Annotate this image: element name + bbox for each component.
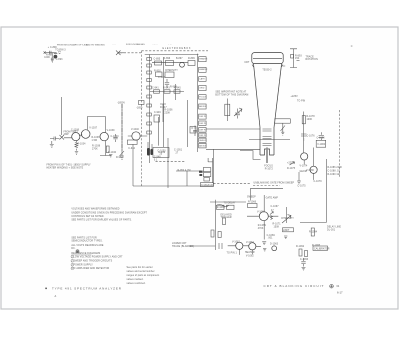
tube V1062a bbox=[236, 242, 243, 249]
labels top-left cluster bbox=[44, 47, 66, 61]
svg-text:4 IF AMPLIFIER AND DETECTOR: 4 IF AMPLIFIER AND DETECTOR bbox=[71, 267, 109, 270]
svg-text:DELAYED: DELAYED bbox=[221, 214, 232, 217]
potentiometer R1081 below astig bbox=[281, 123, 286, 135]
svg-text:R-1092: R-1092 bbox=[296, 246, 305, 248]
svg-text:1 LOW VOLTAGE POWER SUPPLY A: 1 LOW VOLTAGE POWER SUPPLY AND CRT bbox=[71, 255, 123, 258]
svg-text:V-1084: V-1084 bbox=[317, 144, 326, 146]
svg-text:R-1086 220K: R-1086 220K bbox=[328, 167, 343, 169]
right HV rail x303.7 bbox=[303, 112, 305, 153]
svg-text:. ... .. .: . ... .. . bbox=[152, 44, 158, 46]
svg-text:C-1080: C-1080 bbox=[317, 138, 326, 140]
svg-text:.001: .001 bbox=[268, 238, 273, 240]
svg-text:UNBLANKING GATE FROM SWEEP: UNBLANKING GATE FROM SWEEP bbox=[254, 181, 295, 184]
labels R1036 R1038 bbox=[92, 137, 101, 151]
capacitor C1044 box bbox=[127, 140, 137, 144]
svg-text:R-945: R-945 bbox=[174, 88, 181, 90]
to delay line label box bbox=[200, 183, 215, 187]
resistor R1034 bbox=[75, 140, 78, 150]
see important note text bbox=[215, 90, 248, 96]
resistor R1060 row bbox=[154, 90, 181, 93]
CRT side pins bbox=[252, 65, 285, 68]
node arrow W bbox=[116, 51, 124, 56]
box label small bbox=[283, 228, 294, 232]
svg-text:R-902: R-902 bbox=[154, 70, 161, 72]
dashed rail x339.5 bbox=[339, 110, 341, 177]
svg-text:SEMICONDUCTOR TYPES.: SEMICONDUCTOR TYPES. bbox=[71, 241, 103, 243]
svg-text:VOLTAGES AND WAVEFORMS OBTAINE: VOLTAGES AND WAVEFORMS OBTAINED bbox=[71, 208, 119, 211]
svg-text:.. ...: .. ... bbox=[168, 44, 172, 46]
faint header text row bbox=[57, 44, 105, 47]
faint header continuation bbox=[112, 43, 172, 46]
wire y222.4 bbox=[300, 221, 327, 223]
svg-text:R-1061: R-1061 bbox=[217, 207, 226, 209]
tube V1068 blanking bbox=[259, 212, 268, 221]
node input arrow bbox=[60, 133, 65, 140]
wire row y91.5 bbox=[150, 91, 184, 93]
capacitor C1097 bottom right bbox=[301, 258, 305, 270]
capacitor C1048 cluster bbox=[154, 104, 166, 122]
label C1069 bbox=[267, 235, 276, 240]
capacitor C1047 cluster bbox=[155, 61, 196, 66]
comps left of pins bbox=[191, 126, 197, 137]
svg-text:INTENSITY: INTENSITY bbox=[165, 70, 178, 72]
tube V1033 bbox=[81, 130, 90, 139]
svg-text:ROTATION: ROTATION bbox=[306, 58, 319, 61]
wire y139.6 astig bbox=[249, 139, 290, 141]
capacitor C1076 bbox=[301, 134, 307, 141]
see parts list block bbox=[71, 237, 103, 250]
svg-text:V-1074: V-1074 bbox=[300, 166, 309, 168]
label from vert bbox=[64, 132, 79, 137]
CRT grid electrodes bbox=[263, 129, 272, 155]
bottom middle paragraph bbox=[127, 266, 160, 285]
right side labels bbox=[291, 96, 343, 232]
wire under V1036 bbox=[100, 141, 111, 156]
svg-text:TYPE 491 SPECTRUM ANALYZER: TYPE 491 SPECTRUM ANALYZER bbox=[52, 287, 122, 291]
svg-text:R-1078: R-1078 bbox=[307, 116, 316, 118]
CRT cathode stem bbox=[266, 150, 268, 163]
svg-text:TRACE (BLANKED): TRACE (BLANKED) bbox=[172, 245, 194, 248]
comps bottom right bbox=[299, 249, 308, 257]
trace rotation coil L1090 bbox=[290, 49, 300, 68]
svg-text:V-1039: V-1039 bbox=[107, 130, 116, 132]
svg-text:C-1051: C-1051 bbox=[174, 150, 183, 152]
wire vertical x213 bbox=[212, 149, 214, 184]
potentiometer R1042 on dashdot rail bbox=[120, 104, 125, 159]
svg-text:FOR S N RANGES: FOR S N RANGES bbox=[126, 43, 145, 46]
svg-text:C-895: C-895 bbox=[154, 59, 161, 61]
svg-text:AND HV WINDING: AND HV WINDING bbox=[86, 44, 105, 47]
capacitor C1040 bbox=[113, 134, 117, 142]
svg-text:R-1095: R-1095 bbox=[312, 245, 321, 247]
svg-text:R-1066: R-1066 bbox=[248, 202, 257, 204]
svg-text:270K: 270K bbox=[92, 149, 98, 151]
svg-text:220K: 220K bbox=[164, 112, 170, 114]
svg-text:GATE AMP: GATE AMP bbox=[266, 196, 279, 199]
wire rail x187.3 bbox=[186, 100, 188, 147]
trace rotation labels bbox=[295, 56, 318, 62]
wire top rail inside box bbox=[145, 54, 199, 56]
svg-text:DEF PL: DEF PL bbox=[199, 135, 207, 137]
capacitor C1056 symbol bbox=[165, 79, 169, 88]
svg-text:CONTROLS SET AS NOTED.: CONTROLS SET AS NOTED. bbox=[71, 215, 104, 218]
svg-text:-1850V: -1850V bbox=[117, 103, 125, 105]
svg-text:SHIELD: SHIELD bbox=[199, 140, 207, 142]
svg-text:C-1079: C-1079 bbox=[314, 181, 323, 183]
svg-text:UNDER CONDITIONS GIVEN ON PREC: UNDER CONDITIONS GIVEN ON PRECEDING DIAG… bbox=[71, 211, 147, 214]
svg-text:V-1062: V-1062 bbox=[246, 255, 255, 257]
svg-text:+ C-890: + C-890 bbox=[48, 47, 58, 49]
svg-text:V-1064: V-1064 bbox=[246, 242, 255, 244]
svg-text:SEE IMPORTANT NOTE AT: SEE IMPORTANT NOTE AT bbox=[215, 90, 246, 93]
svg-text:E L E C T R O D E B O X: E L E C T R O D E B O X bbox=[163, 48, 191, 50]
svg-text:R-1069: R-1069 bbox=[258, 225, 267, 227]
svg-text:R-896: R-896 bbox=[164, 58, 171, 60]
capacitor C1064 bbox=[235, 109, 240, 119]
connector pins P1..P12 bbox=[199, 57, 206, 148]
wire neck feed y149 bbox=[206, 148, 260, 150]
svg-text:LIMIT: LIMIT bbox=[283, 230, 290, 232]
electrode box dashed outline bbox=[133, 51, 214, 186]
svg-text:. .. .: . .. . bbox=[112, 44, 116, 46]
svg-text:-1850: -1850 bbox=[136, 108, 143, 110]
resistor cluster left of tubes bbox=[211, 230, 221, 238]
connector pin labels bbox=[199, 58, 208, 148]
svg-text:470K: 470K bbox=[258, 228, 264, 230]
svg-text:C-1096: C-1096 bbox=[300, 259, 309, 261]
svg-text:DEF PL: DEF PL bbox=[199, 116, 207, 118]
svg-text:3 POWER SUPPLY: 3 POWER SUPPLY bbox=[71, 265, 93, 267]
svg-text:DEF PL: DEF PL bbox=[199, 130, 207, 132]
svg-text:C-1075: C-1075 bbox=[298, 186, 307, 188]
label plate line bbox=[47, 165, 92, 170]
delay line box row bbox=[217, 205, 235, 209]
connector column rail bbox=[197, 54, 199, 152]
svg-text:1.5M: 1.5M bbox=[92, 140, 98, 142]
svg-text:DELAY LINE: DELAY LINE bbox=[327, 226, 341, 229]
tube V1036 bbox=[100, 132, 108, 140]
resistor hatches right of tube bbox=[271, 216, 273, 220]
svg-text:C-893: C-893 bbox=[56, 59, 63, 61]
svg-text:TO PIN: TO PIN bbox=[297, 101, 305, 103]
svg-text:C-1050: C-1050 bbox=[158, 151, 167, 153]
svg-text:DL-301: DL-301 bbox=[327, 230, 336, 232]
tube V1034 bbox=[72, 133, 80, 141]
rail x215.4 bbox=[214, 200, 216, 250]
svg-text:TRIGGER: TRIGGER bbox=[221, 217, 232, 219]
unblanking gate outline bbox=[251, 188, 284, 200]
svg-text:R-1075: R-1075 bbox=[287, 168, 296, 170]
svg-text:D-1063: D-1063 bbox=[270, 244, 279, 246]
misc small comps right of gate bbox=[290, 162, 302, 184]
junction wire x208 bbox=[208, 158, 213, 183]
svg-text:values marked.: values marked. bbox=[127, 278, 144, 281]
svg-text:100K: 100K bbox=[44, 57, 50, 59]
svg-text:R-893: R-893 bbox=[295, 56, 302, 58]
resistor R1094 bbox=[311, 228, 314, 236]
resistor R1040 bbox=[106, 146, 109, 153]
wires around V1068 bbox=[247, 195, 278, 240]
svg-text:TO DELAY LINE: TO DELAY LINE bbox=[201, 184, 215, 187]
svg-text:R-942: R-942 bbox=[116, 157, 123, 159]
svg-text:R-1090 1M: R-1090 1M bbox=[328, 174, 340, 176]
svg-text:BOTTOM OF THIS DIAGRAM: BOTTOM OF THIS DIAGRAM bbox=[215, 93, 248, 96]
circled plus title bbox=[330, 284, 334, 288]
svg-text:TO PIN 1: TO PIN 1 bbox=[227, 253, 238, 255]
wire y202 bbox=[210, 201, 246, 203]
component C1035 top of rail bbox=[139, 101, 145, 105]
grid arrow V1068 bbox=[270, 211, 273, 214]
svg-text:R-943: R-943 bbox=[163, 88, 170, 90]
terminal ticks on left rail bbox=[147, 58, 152, 135]
heater wavy bbox=[217, 204, 229, 207]
dark comps above label box bbox=[199, 171, 203, 176]
svg-text:values restricted.: values restricted. bbox=[127, 282, 146, 285]
svg-text:R-899: R-899 bbox=[188, 58, 195, 60]
svg-text:C-1069: C-1069 bbox=[267, 235, 276, 237]
svg-text:C-1036: C-1036 bbox=[71, 129, 80, 131]
svg-text:2 SWEEP AND TRIGGER CIRCUITS: 2 SWEEP AND TRIGGER CIRCUITS bbox=[71, 260, 112, 263]
registration dot bottom left bbox=[45, 288, 47, 290]
wire dashed y160 bbox=[156, 160, 186, 162]
label R1071 bbox=[273, 224, 282, 229]
wire to neck pin bbox=[240, 151, 261, 160]
wire stubs above electrolytics bbox=[148, 142, 152, 150]
svg-text:A: A bbox=[55, 294, 57, 298]
svg-text:ANODE: ANODE bbox=[199, 105, 207, 108]
pot R1070 arrow bbox=[282, 207, 291, 223]
svg-text:R-1072: R-1072 bbox=[265, 168, 274, 170]
CRT V1059 envelope bbox=[252, 53, 283, 155]
svg-text:See parts list for earlier: See parts list for earlier bbox=[127, 266, 153, 269]
svg-text:CRT & BLANKING CIRCUIT: CRT & BLANKING CIRCUIT bbox=[264, 284, 325, 288]
svg-text:R-952 4.7M: R-952 4.7M bbox=[178, 170, 191, 172]
wire x133 drop bbox=[132, 144, 134, 186]
svg-text:C-1040: C-1040 bbox=[111, 136, 120, 138]
svg-text:HEATER: HEATER bbox=[199, 68, 208, 71]
resistor R1066 bbox=[248, 204, 258, 208]
wire y129 grid feed bbox=[206, 128, 260, 130]
notes paragraph bbox=[71, 208, 147, 222]
svg-text:TRACE: TRACE bbox=[306, 56, 315, 59]
svg-text:TO DELAY: TO DELAY bbox=[224, 202, 236, 205]
svg-text:T5030-2: T5030-2 bbox=[262, 70, 272, 72]
wire arrow to V1034 bbox=[64, 134, 82, 138]
blanking labels bbox=[172, 163, 330, 262]
wire dashed y183.7 bbox=[213, 183, 250, 185]
wire tube links bbox=[304, 148, 313, 180]
svg-text:DC.: DC. bbox=[71, 248, 76, 250]
svg-text:6-17: 6-17 bbox=[337, 291, 343, 295]
tube V1040 bbox=[132, 132, 140, 140]
svg-text:FOCUS: FOCUS bbox=[199, 97, 207, 99]
astigmatism box bbox=[275, 119, 291, 123]
tube V1062b bbox=[249, 243, 256, 250]
resistor R1089 bbox=[223, 218, 226, 225]
svg-text:SEE PARTS LIST FOR EARLIER VAL: SEE PARTS LIST FOR EARLIER VALUES OF PAR… bbox=[71, 219, 132, 222]
svg-text:FROM SECONDARY OF T-801: FROM SECONDARY OF T-801 bbox=[57, 44, 88, 47]
dashdot HV rail bbox=[121, 104, 123, 151]
tube V1074 bbox=[301, 153, 308, 160]
svg-text:15K: 15K bbox=[295, 58, 300, 60]
wire input vertical bbox=[61, 97, 63, 133]
svg-text:C-1076: C-1076 bbox=[307, 136, 316, 138]
ground symbols scattered bbox=[109, 155, 287, 252]
dashed gate arrow bbox=[253, 184, 280, 186]
svg-text:150K: 150K bbox=[274, 226, 280, 228]
svg-text:values and serial number: values and serial number bbox=[127, 270, 155, 273]
svg-text:C-946: C-946 bbox=[154, 112, 161, 114]
top-left cluster V890 bbox=[44, 51, 61, 63]
svg-text:INTENSITY: INTENSITY bbox=[281, 218, 294, 220]
wire y246 lower crt bbox=[189, 245, 216, 247]
tube V1052 small bbox=[180, 62, 185, 67]
svg-text:+225V: +225V bbox=[291, 96, 299, 98]
svg-text:R-1094: R-1094 bbox=[309, 232, 318, 234]
svg-text:C-1067: C-1067 bbox=[271, 206, 280, 208]
reference diagrams heading bbox=[71, 252, 100, 255]
wire rail x163.6 bbox=[163, 57, 165, 147]
calibrator box bbox=[313, 246, 328, 250]
tube V1080 bbox=[310, 166, 317, 173]
svg-text:C-903: C-903 bbox=[158, 77, 165, 79]
svg-text:LOWER CRT: LOWER CRT bbox=[172, 243, 187, 245]
svg-text:FOCUS: FOCUS bbox=[264, 166, 273, 168]
capacitor C1050 box bbox=[153, 148, 169, 158]
wire bottom cluster bbox=[176, 171, 201, 186]
svg-text:R-1071: R-1071 bbox=[273, 224, 282, 226]
comps on y246 bbox=[219, 243, 222, 249]
svg-text:DEF PL: DEF PL bbox=[199, 123, 207, 125]
labels left tubes bbox=[71, 103, 140, 154]
svg-text:V-1037: V-1037 bbox=[89, 127, 98, 129]
dot top right bbox=[351, 45, 353, 46]
svg-text:HEATER: HEATER bbox=[245, 251, 255, 254]
svg-text:FROM PIN 6 OF T-801 -1850V SU: FROM PIN 6 OF T-801 -1850V SUPPLY bbox=[47, 165, 92, 167]
svg-text:SWEEP: SWEEP bbox=[247, 196, 256, 198]
svg-text:R-1040: R-1040 bbox=[108, 152, 117, 154]
svg-text:C-941: C-941 bbox=[152, 88, 159, 90]
svg-text:HEATER: HEATER bbox=[199, 58, 208, 61]
legend circles bbox=[71, 255, 74, 270]
diode D1063 bbox=[272, 246, 277, 251]
svg-text:CALIBRATOR: CALIBRATOR bbox=[314, 248, 330, 251]
wires lower tubes bbox=[228, 246, 261, 255]
capacitor C1045 dark electrolytics bbox=[147, 148, 153, 156]
bottom cluster resistor R1062 bbox=[203, 168, 211, 181]
svg-text:HEATER WINDING + SEE NOTE: HEATER WINDING + SEE NOTE bbox=[47, 166, 84, 169]
capacitor C891 dark blob bbox=[54, 55, 58, 59]
svg-text:CRT: CRT bbox=[244, 62, 249, 64]
svg-text:V-1068: V-1068 bbox=[257, 212, 266, 214]
wire dashed input to box bbox=[120, 52, 141, 54]
resistor R1054 bbox=[156, 72, 175, 78]
svg-text:100K: 100K bbox=[307, 119, 313, 121]
resistor R1078 bbox=[302, 116, 305, 124]
right rail x326.5 bbox=[326, 159, 328, 222]
svg-text:C-944: C-944 bbox=[128, 148, 135, 150]
svg-text:R-1034: R-1034 bbox=[77, 144, 86, 146]
connector J101 side box bbox=[190, 127, 196, 134]
svg-text:V-1040: V-1040 bbox=[131, 129, 140, 131]
intensity pot cluster bbox=[225, 99, 242, 122]
capacitor C1030 bbox=[50, 137, 60, 148]
legend entries bbox=[71, 255, 123, 270]
wire rail x175.5 bbox=[175, 84, 177, 100]
svg-text:V-1062: V-1062 bbox=[232, 242, 241, 244]
electrode box inner labels bbox=[116, 58, 195, 172]
svg-text:GRID: GRID bbox=[199, 88, 205, 90]
svg-text:CATH: CATH bbox=[199, 78, 205, 81]
svg-text:R-1056: R-1056 bbox=[164, 110, 173, 112]
wire rail x168 bbox=[167, 138, 169, 188]
svg-text:AMP: AMP bbox=[64, 133, 70, 136]
svg-text:B-897: B-897 bbox=[176, 58, 183, 60]
svg-text:ANODE: ANODE bbox=[199, 144, 207, 147]
wire top bus y116.5 bbox=[87, 117, 105, 133]
svg-text:ranges of parts at component: ranges of parts at component bbox=[127, 274, 160, 277]
svg-text:V-1080: V-1080 bbox=[306, 170, 315, 172]
ground under V1068 bbox=[262, 242, 266, 245]
wire V1040 links bbox=[128, 135, 147, 137]
box V1084 bbox=[316, 140, 326, 147]
capacitor C1080 bbox=[319, 132, 324, 140]
svg-text:ALL VOLTS READINGS ARE: ALL VOLTS READINGS ARE bbox=[71, 244, 103, 247]
svg-text:R-1036: R-1036 bbox=[92, 137, 101, 139]
svg-text:C-1088 .01: C-1088 .01 bbox=[328, 171, 341, 173]
svg-text:R-1038: R-1038 bbox=[92, 146, 101, 148]
ground V1034 bbox=[75, 152, 78, 155]
circled plus symbol bbox=[76, 250, 79, 253]
svg-text:SEE PARTS LIST FOR: SEE PARTS LIST FOR bbox=[71, 237, 97, 240]
wire left rail x149 bbox=[149, 55, 151, 164]
